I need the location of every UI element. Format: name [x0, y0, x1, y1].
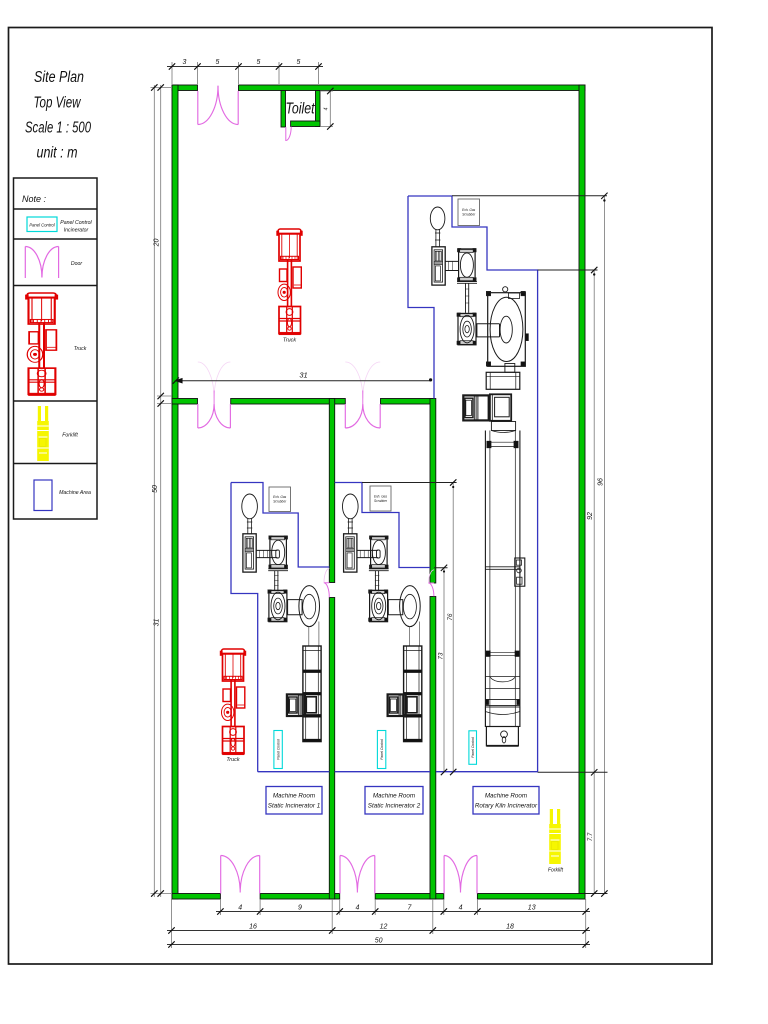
svg-text:Truck: Truck [283, 338, 297, 344]
door wallA faint swing arcs [198, 362, 380, 399]
door wall2 faint upper arc [429, 570, 434, 583]
left dim extensions [151, 88, 173, 894]
svg-text:Machine Room: Machine Room [273, 793, 315, 800]
exh box room2 [370, 486, 391, 511]
svg-text:Scrubber: Scrubber [462, 213, 476, 217]
svg-text:7.7: 7.7 [587, 832, 594, 841]
svg-text:Machine Room: Machine Room [373, 793, 415, 800]
wall bottom segment 4 [477, 894, 585, 900]
wall bottom segment 1 [172, 894, 220, 900]
kiln junction 2 [485, 567, 520, 570]
rotary interior dim lines [444, 483, 453, 773]
bottom dim row2 [167, 930, 590, 932]
right dim extensions [452, 196, 608, 894]
svg-text:Exh. Gas: Exh. Gas [462, 208, 476, 212]
svg-text:50: 50 [152, 485, 159, 493]
svg-text:76: 76 [447, 613, 454, 620]
truck hall [277, 229, 303, 335]
rotary secondary unit [457, 313, 476, 345]
wall right [579, 85, 585, 899]
rotary kiln head body [488, 293, 526, 367]
rotary pipe 1 [445, 261, 458, 270]
toilet dim [320, 91, 333, 127]
wall divider 1 lower [329, 598, 334, 900]
rotary pipe right [476, 324, 499, 337]
svg-text:Scale 1 : 500: Scale 1 : 500 [25, 120, 91, 137]
door wall2 rooms [428, 583, 434, 596]
door top wall leaf L [197, 91, 199, 125]
door bottom-2 arcs [340, 856, 375, 893]
svg-text:Site Plan: Site Plan [34, 69, 84, 86]
svg-text:31: 31 [299, 371, 307, 380]
rotary feeder [432, 247, 445, 285]
wall A segment 1 [172, 399, 198, 405]
svg-text:Note :: Note : [22, 194, 47, 204]
doors magenta [198, 86, 477, 894]
legend forklift symbol [37, 406, 49, 461]
legend truck symbol [26, 293, 58, 396]
svg-text:Toilet: Toilet [286, 101, 315, 118]
svg-text:Panel Control: Panel Control [277, 739, 281, 760]
top dim line [167, 66, 323, 68]
svg-text:Static Incinerator 1: Static Incinerator 1 [268, 803, 321, 810]
bottom dim row3 [167, 944, 590, 946]
bottom dim row1 [216, 911, 590, 913]
door bottom-3 leaves [444, 856, 477, 894]
svg-text:12: 12 [380, 924, 388, 931]
panel control rotary [469, 731, 477, 765]
door bottom-2 leaves [340, 856, 375, 894]
rotary tank [430, 207, 445, 230]
door wallA-2 leaves [345, 404, 380, 428]
door bottom-1 leaves [221, 856, 260, 894]
svg-text:Panel Control: Panel Control [471, 737, 475, 758]
door wallA-1 leaves [198, 404, 231, 428]
svg-text:Machine Room: Machine Room [485, 793, 527, 800]
left dim line outer [153, 85, 155, 897]
svg-text:50: 50 [375, 938, 383, 945]
wall divider 2 upper [430, 399, 436, 584]
svg-text:4: 4 [324, 107, 330, 110]
title block text [25, 69, 91, 162]
rotary kiln tube [485, 431, 520, 728]
rotary plate [457, 282, 477, 284]
svg-text:Top View: Top View [34, 95, 82, 112]
svg-text:Machine Area: Machine Area [59, 490, 91, 496]
rotary machinery [430, 207, 528, 746]
svg-text:13: 13 [528, 905, 536, 912]
truck room1 [220, 649, 246, 755]
dimension ticks [151, 63, 607, 947]
wall left [172, 85, 178, 899]
door top wall arc L [198, 86, 218, 125]
toilet wall left [281, 91, 286, 128]
svg-text:Panel Control: Panel Control [380, 739, 384, 760]
svg-text:Truck: Truck [74, 346, 87, 352]
svg-text:16: 16 [249, 924, 257, 931]
svg-text:Incinerator: Incinerator [64, 228, 89, 234]
svg-text:92: 92 [587, 512, 594, 520]
rotary transition [505, 364, 515, 373]
svg-text:96: 96 [598, 478, 605, 486]
machinery room1 [242, 494, 321, 742]
rotary box section [486, 372, 520, 389]
door toilet [286, 127, 291, 141]
svg-text:18: 18 [506, 924, 514, 931]
label box machine room 1 [266, 787, 322, 815]
toilet wall right [316, 91, 321, 127]
wall A segment 2 [231, 399, 346, 405]
kiln ring 1 [487, 441, 492, 448]
forklift site [549, 809, 561, 864]
kiln band 5 [485, 699, 520, 705]
svg-text:5: 5 [216, 59, 220, 66]
svg-text:73: 73 [438, 652, 445, 659]
svg-text:Truck: Truck [226, 757, 240, 763]
left dim line inner [160, 85, 162, 897]
svg-text:20: 20 [154, 239, 161, 248]
door top wall arc R [218, 86, 238, 125]
svg-text:Static Incinerator 2: Static Incinerator 2 [368, 803, 421, 810]
rotary kiln head flanges [486, 291, 491, 296]
door bottom-1 arcs [221, 856, 260, 893]
svg-text:Forklift: Forklift [548, 868, 564, 874]
svg-text:9: 9 [298, 905, 302, 912]
machinery room2 [343, 494, 422, 742]
bottom dim extensions [172, 899, 586, 948]
kiln end cap [485, 707, 520, 727]
kiln band 4 [485, 677, 520, 689]
svg-text:3: 3 [183, 59, 187, 66]
door wallA apex ticks [214, 391, 363, 405]
hall interior dim line 31 [176, 380, 431, 382]
door top wall leaf R [237, 91, 239, 125]
machine area room2 polygon [335, 483, 430, 772]
rotary incinerator [457, 248, 476, 281]
machine area rotary polygon [408, 196, 538, 772]
legend machine area symbol [34, 480, 52, 511]
wall top segment left [172, 85, 198, 91]
svg-text:Panel Control: Panel Control [60, 220, 92, 226]
svg-text:Scrubber: Scrubber [273, 500, 287, 504]
door wallA-1 arcs [198, 404, 231, 428]
legend door symbol [25, 247, 58, 279]
svg-text:Exh. Gas: Exh. Gas [374, 495, 388, 499]
svg-text:Panel Control: Panel Control [29, 223, 55, 228]
wall A segment 3 [381, 399, 435, 405]
legend box [14, 178, 98, 519]
door wallA-2 arcs [345, 404, 380, 428]
dimension texts [152, 59, 604, 945]
kiln bottom box [486, 727, 518, 746]
svg-text:4: 4 [238, 905, 242, 912]
wall bottom segment 3 [375, 894, 444, 900]
dim end dots [429, 199, 606, 572]
rotary center unit [490, 394, 511, 421]
exh box rotary [458, 199, 480, 226]
svg-text:unit : m: unit : m [37, 145, 78, 162]
svg-text:4: 4 [355, 905, 359, 912]
machine area room1 polygon [231, 483, 329, 772]
svg-text:Door: Door [71, 261, 83, 267]
label box machine room 2 [365, 787, 423, 815]
svg-text:Exh. Gas: Exh. Gas [273, 495, 287, 499]
door bottom-3 arcs [444, 855, 477, 892]
svg-text:5: 5 [297, 59, 301, 66]
rotary L block [463, 395, 488, 420]
svg-text:Rotary Kiln Incinerator: Rotary Kiln Incinerator [475, 803, 538, 810]
right dim line outer [603, 196, 605, 893]
svg-text:5: 5 [257, 59, 261, 66]
label box machine room rotary [473, 787, 539, 815]
kiln ring 3 [486, 651, 490, 657]
svg-text:31: 31 [154, 619, 161, 627]
legend panel control symbol [27, 217, 57, 232]
walls [172, 85, 585, 899]
svg-text:4: 4 [459, 905, 463, 912]
rotary band [491, 422, 515, 431]
dimension lines [151, 62, 608, 948]
wall bottom segment 2 [260, 894, 340, 900]
door wall1 rooms [324, 583, 330, 598]
panel control room2 [377, 731, 385, 769]
svg-text:Forklift: Forklift [62, 433, 78, 439]
panel control room1 [274, 731, 282, 769]
toilet wall bottom [291, 121, 320, 127]
exh box room1 [269, 487, 291, 512]
top dim extension lines [172, 62, 319, 84]
wall divider 2 lower [430, 597, 436, 900]
door wall1 faint upper arc [324, 568, 329, 582]
wall divider 1 upper [329, 399, 334, 583]
rotary interior dim extension [362, 483, 457, 568]
wall top segment main [239, 85, 586, 91]
svg-text:Scrubber: Scrubber [374, 499, 388, 503]
right dim line inner [593, 270, 595, 893]
rotary pipe down [466, 284, 469, 313]
